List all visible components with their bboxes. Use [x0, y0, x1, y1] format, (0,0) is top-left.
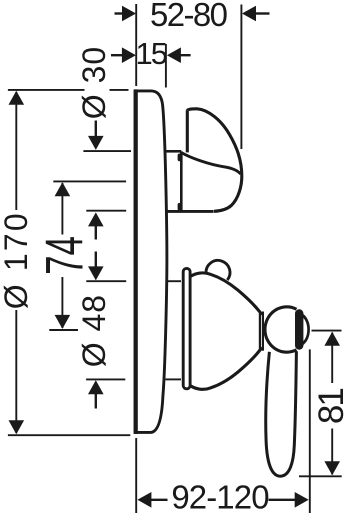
dim 81 line lower	[331, 429, 333, 475]
arrow 15 left	[122, 47, 136, 63]
valve neck line right	[262, 312, 264, 351]
dim 81 line upper	[331, 333, 333, 384]
thermostat flange right edge	[180, 151, 183, 211]
arrow 74 down	[55, 315, 71, 329]
svg-text:15: 15	[136, 36, 167, 71]
arrow O30 down	[88, 136, 104, 150]
dim 74 line upper	[61, 183, 63, 235]
thermostat flange tab lower	[178, 203, 183, 211]
arrow O48 down	[88, 266, 104, 280]
svg-text:Ø 170: Ø 170	[0, 211, 34, 309]
arrow 81 up	[324, 332, 340, 346]
dim O48 lower arrow shaft	[95, 394, 97, 409]
dim 74 line lower	[61, 277, 63, 328]
thermostat dome top outline	[187, 109, 242, 177]
svg-text:Ø 48: Ø 48	[76, 294, 112, 367]
svg-text:Ø 30: Ø 30	[76, 46, 112, 119]
dim O48 upper arrow shaft	[95, 252, 97, 268]
svg-text:74: 74	[35, 236, 94, 275]
dim O30 bottom ext	[86, 210, 126, 212]
lever ball cap arc	[297, 312, 308, 348]
dim 15 right arrow tail	[180, 54, 191, 56]
dim 15 ext right	[165, 44, 167, 88]
dim O170 top ext b	[110, 89, 129, 91]
dim 52-80 ext left (wall line top)	[135, 4, 137, 86]
dim 74 top ext	[53, 180, 126, 182]
arrow 92-120 right	[295, 492, 309, 508]
arrow O48 up	[88, 380, 104, 394]
svg-text:92-120: 92-120	[171, 479, 269, 513]
dim O30 upper arrow shaft	[95, 121, 97, 138]
svg-text:52-80: 52-80	[150, 0, 228, 33]
thermostat dome waist curve	[181, 153, 240, 174]
dim O48 top ext right seg	[167, 280, 182, 282]
dim O170 top ext a	[8, 89, 85, 91]
dim 81 top ext	[312, 330, 342, 332]
dim 92-120 right arrow tail	[269, 499, 297, 501]
dim O170 bottom ext	[8, 434, 130, 436]
dim 52-80 ext right	[240, 5, 242, 150]
dim 92-120 right ext	[309, 349, 311, 513]
escutcheon plate outline	[135, 91, 167, 433]
thermostat dome left edge	[186, 111, 189, 152]
lever ball crescent	[295, 314, 303, 346]
valve flange pill bar	[183, 268, 190, 388]
dim O48 bottom ext	[86, 378, 125, 380]
lever ball outline arc	[265, 307, 297, 352]
arrow O170 down	[9, 420, 25, 434]
dim O170 line lower	[15, 310, 17, 433]
thermostat knob bottom edge	[166, 210, 214, 213]
svg-text:81: 81	[312, 389, 345, 424]
arrow 74 up	[55, 182, 71, 196]
lever ball fill	[265, 307, 297, 352]
arrow 15 right	[167, 47, 181, 63]
arrow O170 up	[9, 91, 25, 105]
valve button bump	[206, 260, 230, 280]
dim 52-80 right arrow tail	[255, 12, 270, 14]
dim 52-80 left arrow tail	[115, 12, 124, 14]
valve bell top outline	[191, 273, 262, 315]
lever handle	[266, 351, 297, 476]
valve bell bottom outline	[191, 347, 262, 389]
escutcheon plate wall edge	[134, 89, 138, 434]
dim 74 bottom tick	[49, 329, 78, 331]
dim O48 top ext	[86, 280, 126, 282]
dim O170 line upper	[15, 92, 17, 210]
thermostat flange top edge	[166, 150, 182, 153]
valve neck line left	[259, 313, 261, 349]
dim 92-120 left arrow tail	[150, 499, 168, 501]
dim O48 bottom ext right seg	[166, 378, 182, 380]
thermostat flange tab upper	[178, 154, 183, 162]
dim 92-120 left ext (wall line bottom)	[135, 438, 137, 513]
arrow 52-80 left	[122, 6, 136, 22]
arrow 81 down	[324, 461, 340, 475]
dim 15 left arrow tail	[111, 54, 123, 56]
dim O30 top ext	[83, 150, 131, 152]
thermostat dome lower outline	[214, 177, 242, 212]
arrow 52-80 right	[242, 6, 256, 22]
dim 81 bottom ext	[299, 475, 342, 477]
arrow 92-120 left	[137, 492, 151, 508]
arrow O30 up	[88, 212, 104, 226]
dim O30 lower arrow shaft	[95, 226, 97, 240]
